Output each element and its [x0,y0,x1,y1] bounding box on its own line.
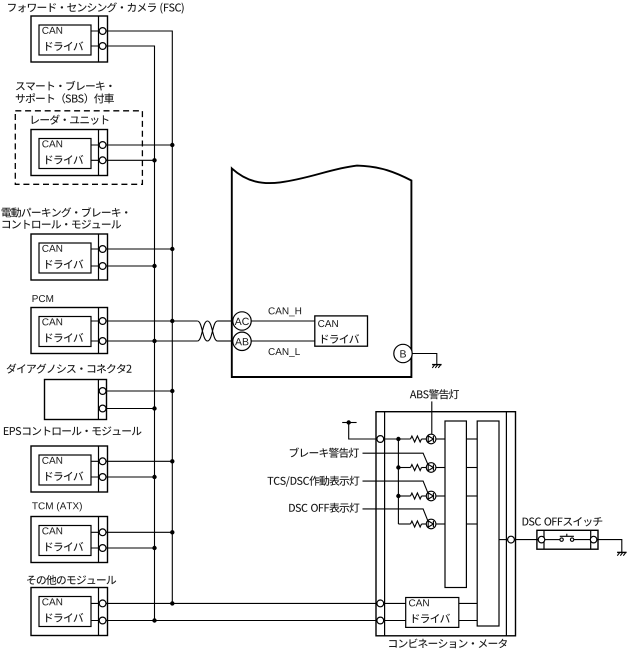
module TCM connector strip [98,517,100,563]
module PCM outer box [31,308,108,354]
resistor DSC OFF indicator lamp [411,521,422,527]
wire radar bottom pin to CAN_L bus [106,159,155,161]
wire radar top pin to CAN_H bus [106,144,172,146]
wire terminal AB to DSC CAN driver [251,340,315,342]
wire resistor to lamp [422,495,427,497]
DSC OFF switch box [537,530,598,549]
label ABS warning lamp [410,389,459,399]
wire CAN driver to pins other modules [91,603,99,620]
terminal B circle [394,344,412,362]
label driver (TCM) [46,542,83,551]
wire terminal B to ground [412,354,437,365]
wire block1 to block2 row 4 [466,523,477,525]
switch left strip [543,530,545,549]
pin circle diagnosis CAN_L [99,405,106,412]
pin circle switch right [590,536,597,543]
pin circle TCM CAN_H [99,529,106,536]
label driver (radar unit) [46,155,83,164]
module other modules outer box [31,588,108,636]
wire distribution to row 4 [398,523,410,525]
wire meter to DSC OFF switch [514,539,538,541]
label brake warning lamp [290,448,359,458]
label other modules [27,575,116,585]
pin circle EPS CAN_L [99,474,106,481]
wire CAN_L bus (left vertical) with corner from FSC bottom pin [106,46,155,621]
wire diagnosis bottom pin to CAN_L bus [106,408,155,410]
junction dot power feed [347,420,351,424]
lamp brake warning lamp [426,463,436,473]
module EPS outer box [31,446,108,492]
label TCS/DSC indicator lamp [268,476,360,487]
switch right strip [590,530,592,549]
label driver (other modules) [46,613,83,622]
dashed box SBS equipped vehicle [15,111,142,185]
module TCM inner CAN driver box [39,526,91,556]
wire other modules bottom pin to meter CAN_L [106,620,377,622]
wire block1 to block2 row 2 [466,467,477,469]
resistor brake warning lamp [411,465,422,471]
pin circle FSC CAN_L [99,43,106,50]
junction dot other CAN_H [170,601,174,605]
module EPB connector strip [98,234,100,280]
module FSC outer box [31,16,108,62]
pin circle EPS CAN_H [99,458,106,465]
pin circle EPB CAN_L [99,263,106,270]
leader line ABS warning lamp [431,401,433,434]
junction dot EPB CAN_L [152,264,156,268]
pin circle EPB CAN_H [99,246,106,253]
label smart brake support line1 [16,81,112,91]
wire meter pin to CAN driver (L) [384,620,406,622]
meter CAN driver box [406,598,459,628]
twisted pair CAN_L strand [197,321,217,341]
label CAN (radar unit) [42,140,62,147]
pin circle meter CAN_L [377,617,384,624]
label electric parking brake line2 [3,220,122,229]
pin circle PCM CAN_L [99,338,106,345]
junction dot other CAN_L [152,618,156,622]
junction dot TCM CAN_H [170,530,174,534]
resistor ABS warning lamp [411,436,422,442]
push switch actuator [560,534,574,537]
ground symbol (DSC OFF switch) [617,552,627,555]
wire EPS bottom pin to CAN_L bus [106,476,155,478]
wire PCM CAN_L to twisted pair [106,340,197,342]
pin circle FSC CAN_H [99,28,106,35]
label driver (EPB) [46,259,83,268]
diagnosis connector box [45,380,107,420]
wire twisted pair to terminal AC [218,320,233,322]
label terminal AB [235,338,248,345]
wire meter pin to ABS lamp row [384,438,411,440]
junction dot diagnosis CAN_H [170,389,174,393]
pin circle TCM CAN_L [99,545,106,552]
wire lamp to block1 [436,523,445,525]
module TCM outer box [31,517,108,563]
wire block1 to block2 row 3 [466,495,477,497]
wire EPS top pin to CAN_H bus [106,460,172,462]
resistor TCS/DSC indicator lamp [411,493,422,499]
label diagnosis connector 2 [7,364,132,374]
wire CAN driver to pins TCM [91,532,99,548]
module EPS connector strip [98,446,100,492]
lamp DSC OFF indicator lamp [426,519,436,529]
wire CAN driver to pins PCM [91,321,99,341]
module FSC connector strip [98,16,100,62]
label net CAN_H [269,307,302,316]
pin circle radar unit CAN_L [99,157,106,164]
label electric parking brake line1 [2,207,128,217]
junction dot PCM CAN_L [152,339,156,343]
meter internal block 2 [477,421,499,626]
label CAN (meter) [409,599,429,606]
label CAN (EPS) [42,457,62,464]
pin circle other modules CAN_H [99,600,106,607]
label CAN (PCM) [42,318,62,325]
wire block2 to DSC OFF switch pin [499,539,508,541]
pin circle diagnosis CAN_H [99,388,106,395]
junction dot PCM CAN_H [170,319,174,323]
wire twisted pair to terminal AB [218,340,233,342]
label CAN (other modules) [42,598,62,605]
junction dot diagnosis CAN_L [152,406,156,410]
wire resistor to lamp [422,523,427,525]
label net CAN_L [269,348,300,357]
power feed bar [342,422,356,424]
wire meter CAN driver to block2 (H) [459,602,477,604]
wire EPB bottom pin to CAN_L bus [106,265,155,267]
wire lamp to block1 [436,438,445,440]
module radar unit outer box [31,130,108,176]
wire switch to ground [597,540,622,553]
module PCM connector strip [98,308,100,354]
twisted pair CAN_H strand [197,321,217,341]
pin circle meter CAN_H [377,600,384,607]
module radar unit connector strip [98,130,100,176]
wire power feed to meter pin [349,423,377,440]
wire distribution to row 3 [398,495,410,497]
module PCM inner CAN driver box [39,317,91,347]
module EPS inner CAN driver box [39,455,91,485]
wire EPB top pin to CAN_H bus [106,248,172,250]
wire CAN_H bus (right vertical) with corner from FSC top pin [106,31,172,603]
diagnosis connector strip [97,380,99,420]
label driver (DSC) [322,334,359,343]
pin circle radar unit CAN_H [99,142,106,149]
label smart brake support line2 [16,93,114,103]
junction dot TCM CAN_L [152,546,156,550]
wire block1 to block2 row 1 [466,438,477,440]
wire meter pin to CAN driver (H) [384,602,406,604]
label DSC OFF indicator lamp [289,503,359,513]
label terminal AC [235,318,249,325]
pin circle other modules CAN_L [99,617,106,624]
wire other modules top pin to meter CAN_H [106,602,377,604]
wire lamp to block1 [436,467,445,469]
module radar unit inner CAN driver box [39,139,91,169]
wire CAN driver to pins FSC [91,31,99,46]
pin circle meter IG feed [377,436,384,443]
wire lamp to block1 [436,495,445,497]
junction dot EPB CAN_H [170,247,174,251]
wire TCM top pin to CAN_H bus [106,531,172,533]
leader line brake warning lamp [363,453,428,464]
wire CAN driver to pins radar unit [91,145,99,160]
meter internal block 1 [445,421,466,588]
wire resistor to lamp [422,467,427,469]
junction dot distribution row 1 [396,437,400,441]
junction dot radar CAN_H [170,143,174,147]
junction dot EPS CAN_H [170,459,174,463]
label driver (meter) [413,614,450,623]
leader line TCS/DSC indicator lamp [363,481,428,493]
label CAN (FSC) [42,27,62,34]
label radar unit [32,115,109,125]
label driver (FSC) [46,41,83,50]
terminal AB circle [233,332,251,350]
DSC HU/CM partial box with wavy top [232,166,412,377]
pin circle meter DSC OFF switch [508,536,515,543]
label CAN (DSC) [318,320,338,327]
label TCM (ATX) [32,502,82,511]
meter left connector strip [384,412,386,636]
label EPS control module [4,426,142,435]
junction dot distribution row 2 [396,465,400,469]
wire resistor to lamp [422,438,427,440]
wire diagnosis top pin to CAN_H bus [106,390,172,392]
pin circle switch left [538,536,545,543]
wire switch internal left [545,539,560,541]
wire terminal AC to DSC CAN driver [251,320,315,322]
pin circle PCM CAN_H [99,318,106,325]
junction dot radar CAN_L [152,158,156,162]
label driver (PCM) [46,333,83,342]
lamp ABS warning lamp [426,434,436,444]
junction dot EPS CAN_L [152,475,156,479]
module EPB inner CAN driver box [39,243,91,273]
wire TCM bottom pin to CAN_L bus [106,547,155,549]
wire meter CAN driver to block2 (L) [459,620,477,622]
label driver (EPS) [46,471,83,480]
meter right connector strip [505,412,507,636]
junction dot distribution row 3 [396,494,400,498]
wire switch internal right [574,539,590,541]
push switch contacts [560,538,574,541]
wire PCM CAN_H to twisted pair [106,320,197,322]
label terminal B [400,350,406,357]
module EPB outer box [31,234,108,280]
ground symbol (DSC B terminal) [432,365,442,368]
label PCM [33,295,54,302]
label forward sensing camera (FSC) [8,2,184,13]
wire lamp distribution vertical [397,439,399,524]
combination meter outer box [376,412,516,636]
module other modules inner CAN driver box [39,597,91,627]
label CAN (TCM) [42,527,62,534]
wire CAN driver to pins EPS [91,461,99,477]
DSC CAN driver box [315,316,368,346]
wire CAN driver to pins EPB [91,249,99,266]
module FSC inner CAN driver box [39,25,91,55]
terminal AC circle [233,312,251,330]
label DSC OFF switch [523,517,603,526]
wire distribution to row 2 [398,467,410,469]
label CAN (EPB) [42,245,62,252]
lamp TCS/DSC indicator lamp [426,491,436,501]
module other modules connector strip [98,588,100,636]
label combination meter [389,639,507,649]
leader line DSC OFF indicator lamp [363,509,428,521]
